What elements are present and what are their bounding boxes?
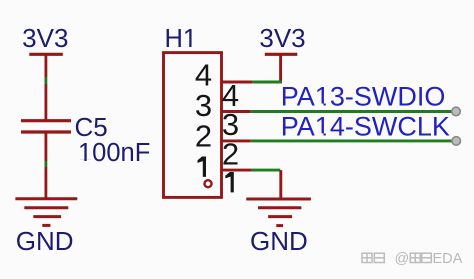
endpoint node PA14 (452, 137, 461, 146)
endpoint node PA13 (452, 107, 461, 116)
wire power to C5 (45, 77, 48, 84)
svg-text:3V3: 3V3 (259, 23, 305, 53)
svg-text:PA13-SWDIO: PA13-SWDIO (281, 82, 446, 112)
pin name 1 (inside) (198, 157, 207, 177)
power symbol 3V3 right bar (265, 53, 298, 56)
pin 2 stub (221, 139, 251, 142)
pin-1 indicator circle (205, 180, 212, 187)
wire segment to ground (left) (45, 167, 48, 198)
svg-text:3V3: 3V3 (22, 23, 68, 53)
svg-text:PA14-SWCLK: PA14-SWCLK (281, 111, 450, 141)
capacitor C5 bottom plate (21, 130, 71, 133)
svg-text:EDA: EDA (433, 251, 463, 267)
svg-text:2: 2 (195, 118, 212, 153)
pin number 1 (outside) (225, 172, 234, 192)
svg-text:GND: GND (16, 226, 74, 256)
svg-text:100nF: 100nF (78, 139, 150, 167)
svg-text:H1: H1 (165, 25, 198, 53)
watermark zhihu @lichuang EDA (362, 253, 431, 262)
svg-text:GND: GND (250, 226, 308, 256)
pin of power symbol (left) (45, 54, 48, 77)
pin capacitor bottom (45, 132, 48, 161)
pin of power symbol (right) (279, 54, 282, 83)
capacitor C5 top plate (21, 119, 71, 122)
pin 4 stub (221, 81, 252, 84)
ground symbol (left) (15, 199, 77, 226)
wire down to ground (right) (279, 170, 282, 198)
wire C5 to GND (45, 161, 48, 167)
pin 1 stub (221, 169, 251, 172)
glyph patch: H1 one-serif (79, 45, 332, 162)
connector H1 body (164, 53, 222, 198)
svg-text:C5: C5 (75, 112, 108, 142)
wire pin1 to GND (251, 169, 280, 172)
wire segment to capacitor top (45, 84, 48, 120)
power symbol 3V3 left bar (29, 53, 63, 56)
pin 3 stub (221, 110, 251, 113)
wire pin4 to 3V3 (252, 81, 281, 84)
wire pin2 PA14-SWCLK (251, 139, 452, 142)
svg-text:@: @ (395, 251, 410, 267)
svg-text:2: 2 (222, 137, 239, 172)
ground symbol (right) (246, 199, 311, 226)
wire pin3 PA13-SWDIO (251, 110, 452, 113)
